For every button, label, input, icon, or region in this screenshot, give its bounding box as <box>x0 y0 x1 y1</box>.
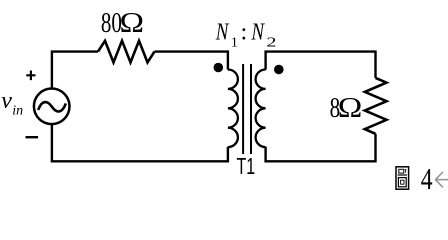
plus polarity mark <box>26 71 35 81</box>
svg-text::: : <box>241 20 248 46</box>
svg-text:N: N <box>251 17 266 45</box>
svg-text:Ω: Ω <box>338 92 363 123</box>
wire primary top rail right segment to transformer <box>155 52 228 70</box>
svg-text:1: 1 <box>231 35 238 50</box>
svg-text:v: v <box>1 88 12 114</box>
transformer core line 2 <box>250 64 252 154</box>
minus polarity mark <box>26 136 39 138</box>
wire primary bottom rail <box>52 124 228 162</box>
svg-text:N: N <box>215 17 230 45</box>
svg-text:Ω: Ω <box>120 7 145 38</box>
wire secondary bottom rail <box>266 134 376 162</box>
svg-text:4: 4 <box>421 162 433 196</box>
transformer core line 1 <box>242 64 244 154</box>
svg-text:2: 2 <box>266 33 276 49</box>
editing arrow mark <box>435 172 448 187</box>
resistor 8ohm zigzag <box>365 78 387 134</box>
svg-text:in: in <box>12 103 23 118</box>
transformer T1 secondary winding <box>256 70 266 148</box>
voltage source sine wave <box>38 102 66 111</box>
polarity dot primary <box>214 63 224 73</box>
wire secondary top rail <box>266 52 376 78</box>
resistor R 80ohm zigzag <box>98 41 155 63</box>
wire primary top rail left segment <box>52 52 98 89</box>
polarity dot secondary <box>274 65 284 75</box>
figure caption CJK glyph tu (drawn) <box>396 167 409 189</box>
voltage source vin circle <box>34 89 70 125</box>
svg-text:T1: T1 <box>237 154 256 180</box>
transformer T1 primary winding <box>228 70 238 148</box>
